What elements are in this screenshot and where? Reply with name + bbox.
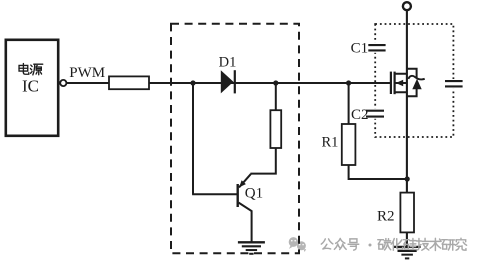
- svg-text:R2: R2: [377, 209, 395, 225]
- svg-text:C1: C1: [351, 41, 369, 57]
- svg-text:R1: R1: [322, 135, 339, 151]
- svg-text:D1: D1: [219, 55, 237, 71]
- svg-text:C2: C2: [351, 107, 369, 123]
- svg-text:IC: IC: [22, 77, 39, 96]
- svg-text:Q1: Q1: [245, 186, 263, 202]
- svg-text:PWM: PWM: [69, 65, 105, 81]
